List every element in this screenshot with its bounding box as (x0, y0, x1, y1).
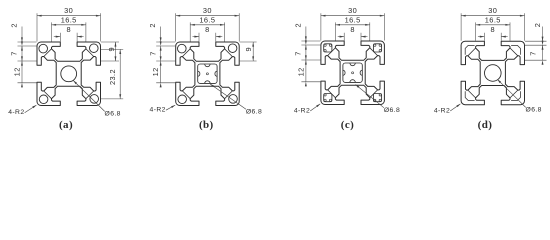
dim 7 (160, 41, 162, 46)
right extension line 9 (101, 41, 119, 43)
profile outline with four T-slot pockets (461, 41, 524, 104)
svg-text:16.5: 16.5 (199, 15, 215, 24)
dim 30 extension lines (460, 13, 462, 41)
dim 16.5 (52, 24, 86, 26)
svg-text:Ø6.8: Ø6.8 (384, 107, 400, 114)
svg-text:8: 8 (205, 25, 210, 34)
centre bore (485, 65, 502, 82)
dim 2 (305, 36, 307, 41)
svg-text:16.5: 16.5 (345, 15, 361, 24)
centre mark (352, 72, 354, 74)
corner brace lines (183, 49, 191, 57)
svg-text:30: 30 (348, 6, 357, 15)
svg-text:4-R2: 4-R2 (150, 107, 166, 114)
dim 8 extension lines (198, 33, 200, 42)
profile outline with four T-slot pockets (321, 41, 385, 105)
dim 30 extension lines (36, 13, 38, 41)
svg-text:30: 30 (203, 6, 212, 15)
svg-text:Ø6.8: Ø6.8 (526, 107, 542, 114)
cavity inner bumps (350, 63, 355, 66)
svg-text:(c): (c) (341, 119, 354, 131)
svg-text:30: 30 (64, 6, 73, 15)
left extension lines (301, 40, 320, 42)
svg-text:(b): (b) (199, 119, 214, 131)
dim 30 extension lines (175, 13, 177, 41)
dim 16.5 extension lines (334, 22, 336, 40)
dim 9 (252, 42, 254, 61)
dim 8 extension lines (343, 33, 345, 41)
profile outline with four T-slot pockets (37, 42, 101, 106)
left dimension line (160, 27, 162, 43)
dim 16.5 (335, 24, 369, 26)
svg-text:4-R2: 4-R2 (8, 109, 24, 116)
svg-text:12: 12 (151, 67, 160, 76)
corner brace lines (328, 48, 336, 56)
svg-text:(d): (d) (478, 119, 493, 131)
dim 8 (338, 36, 345, 38)
svg-text:9: 9 (244, 47, 253, 52)
dim 30 extension lines (320, 13, 322, 40)
svg-text:7: 7 (529, 51, 538, 56)
dim 16.5 (476, 24, 510, 26)
dim 7 right (542, 41, 544, 46)
dim 8 (193, 36, 200, 38)
svg-text:23.2: 23.2 (108, 69, 117, 85)
svg-text:2: 2 (293, 23, 302, 28)
svg-text:8: 8 (350, 25, 355, 34)
svg-text:16.5: 16.5 (61, 15, 77, 24)
dim 16.5 extension lines (189, 22, 191, 41)
corner bore holes (4-R2) (178, 44, 187, 53)
left extension lines (156, 41, 175, 43)
dim 12 (160, 56, 162, 61)
svg-text:8: 8 (491, 25, 496, 34)
svg-text:30: 30 (488, 6, 497, 15)
svg-text:7: 7 (148, 51, 157, 56)
dim 2 right (542, 37, 544, 42)
svg-text:12: 12 (13, 67, 22, 76)
svg-text:4-R2: 4-R2 (434, 107, 450, 114)
centre mark (206, 73, 208, 75)
left dimension line (305, 27, 307, 42)
svg-text:2: 2 (533, 23, 542, 28)
svg-text:12: 12 (296, 67, 305, 76)
dim 2 (160, 37, 162, 42)
right extension line 9 (240, 41, 257, 43)
dim 30 (37, 15, 101, 17)
svg-text:7: 7 (294, 51, 303, 56)
corner bore holes (4-R2) (39, 44, 48, 53)
cavity inner bumps (205, 64, 210, 67)
svg-text:Ø6.8: Ø6.8 (246, 109, 262, 116)
right dimension line (542, 27, 544, 42)
dim 12 (305, 55, 307, 60)
corner brace lines (44, 49, 52, 57)
right extension lines 23.2 (101, 48, 123, 50)
corner brace lines (468, 48, 476, 56)
centre bore (61, 66, 77, 82)
dim 8 extension lines (59, 33, 61, 42)
svg-text:7: 7 (10, 51, 19, 56)
svg-text:4-R2: 4-R2 (294, 107, 310, 114)
dim 16.5 (190, 24, 224, 26)
svg-text:2: 2 (10, 23, 19, 28)
dim 7 (305, 40, 307, 45)
centre square cavity (198, 64, 217, 83)
dim 8 extension lines (483, 33, 485, 41)
dim 23.2 (119, 49, 121, 99)
profile outline with four T-slot pockets (176, 42, 240, 106)
dim 7 (21, 41, 23, 46)
svg-text:16.5: 16.5 (485, 15, 501, 24)
dim 16.5 extension lines (475, 22, 477, 40)
centre square cavity (343, 63, 362, 82)
right extension lines (525, 40, 547, 42)
left extension lines (18, 41, 37, 43)
dim 16.5 extension lines (51, 22, 53, 41)
svg-text:2: 2 (148, 23, 157, 28)
left dimension line (21, 27, 23, 43)
dim 30 (321, 15, 385, 17)
svg-text:8: 8 (66, 25, 71, 34)
dim 8 (478, 36, 485, 38)
dim 9 (115, 42, 117, 61)
corner square bores (324, 44, 332, 52)
dim 12 (21, 56, 23, 61)
dim 2 (21, 37, 23, 42)
svg-text:(a): (a) (59, 119, 73, 131)
dim 30 (461, 15, 524, 17)
inner corner walls (465, 45, 474, 54)
dim 8 (54, 36, 61, 38)
dim 30 (176, 15, 240, 17)
svg-text:Ø6.8: Ø6.8 (105, 111, 121, 118)
